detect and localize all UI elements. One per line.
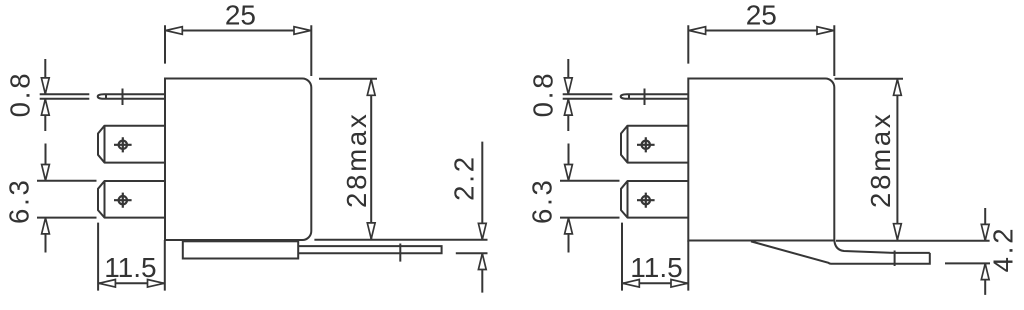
terminal blade T2 left [98, 181, 165, 218]
svg-text:0.8: 0.8 [5, 71, 36, 118]
dimension 28max left: extension line [319, 78, 377, 80]
coil pin left [98, 94, 165, 99]
dimension 28max left: arrows [367, 79, 375, 239]
dimension 25 left: dimension line [165, 30, 311, 32]
dimension 25 right: arrows [689, 27, 833, 35]
terminal hole mark T1 left [114, 137, 132, 152]
dimension 25 right: dimension line [688, 30, 834, 32]
dimension 25 left: extension lines [165, 25, 311, 76]
terminal blade T2 right [621, 181, 688, 218]
svg-text:28max: 28max [341, 111, 372, 208]
pin tick right [644, 89, 646, 106]
svg-text:11.5: 11.5 [630, 252, 682, 283]
tab centre tick left [399, 244, 401, 262]
svg-text:4.2: 4.2 [988, 226, 1019, 273]
pin tick left [122, 89, 124, 106]
dimension 4.2 right: extension lines [836, 241, 990, 264]
svg-text:28max: 28max [865, 111, 896, 208]
dimension 28max right: extension line [835, 78, 904, 80]
terminal hole mark T1 right [637, 137, 655, 152]
dimension 0.8 left: extension lines [40, 94, 90, 99]
dimension 0.8 right: dimension line and tails [567, 59, 569, 131]
terminal blade T1 left [98, 126, 165, 163]
dimension 2.2 left: dimension line and tails [481, 142, 483, 293]
svg-text:0.8: 0.8 [528, 71, 559, 118]
mounting bracket right: upper surface [834, 241, 929, 253]
svg-text:25: 25 [225, 0, 256, 30]
coil pin right [621, 94, 689, 99]
dimension 6.3 left: arrows [42, 165, 50, 234]
dimension 11.5 left: arrows [99, 280, 164, 288]
dimension 6.3 left: extension lines [37, 181, 97, 218]
dimension 0.8 left: dimension line and tails [44, 59, 46, 131]
svg-text:6.3: 6.3 [527, 177, 558, 224]
dimension 6.3 right: extension lines [560, 181, 620, 218]
dimension 11.5 left: extension lines [98, 223, 165, 291]
dimension 28max right: dimension line [896, 79, 898, 241]
base flange left [183, 241, 298, 258]
dimension 28max right: arrows [894, 79, 902, 239]
svg-text:2.2: 2.2 [449, 154, 480, 201]
dimension 6.3 right: arrows [565, 165, 573, 234]
dimension 0.8 right: arrows [564, 78, 572, 115]
dimension 4.2 right: arrows [981, 224, 989, 279]
dimension 2.2 left: arrows [478, 223, 486, 269]
relay body right [688, 79, 834, 241]
dimension 11.5 right: dimension line [622, 282, 688, 284]
svg-text:25: 25 [746, 0, 777, 30]
bracket centre tick right [894, 251, 896, 267]
dimension 6.3 left: dimension line and tails [45, 144, 47, 253]
dimension 11.5 right: arrows [623, 280, 688, 288]
terminal hole mark T2 left [114, 193, 132, 208]
dimension 0.8 left: arrows [41, 78, 49, 115]
dimension 0.8 right: extension lines [563, 94, 613, 99]
dimension 28max left: dimension line [370, 79, 372, 240]
dimension 6.3 right: dimension line and tails [568, 144, 570, 253]
dimension 4.2 right: dimension line and tails [984, 208, 986, 295]
dimension 11.5 left: dimension line [98, 282, 165, 284]
dimension 2.2 left: extension lines [314, 240, 487, 254]
terminal hole mark T2 right [637, 193, 655, 208]
dimension 25 right: extension lines [688, 25, 834, 76]
dimension 25 left: arrows [166, 27, 311, 35]
dimension 11.5 right: extension lines [622, 223, 688, 291]
mounting tab left [298, 246, 441, 253]
terminal blade T1 right [621, 126, 688, 163]
mounting bracket right: lower surface and end [751, 241, 930, 263]
svg-text:11.5: 11.5 [104, 252, 156, 283]
svg-text:6.3: 6.3 [4, 177, 35, 224]
relay body left [165, 79, 311, 241]
